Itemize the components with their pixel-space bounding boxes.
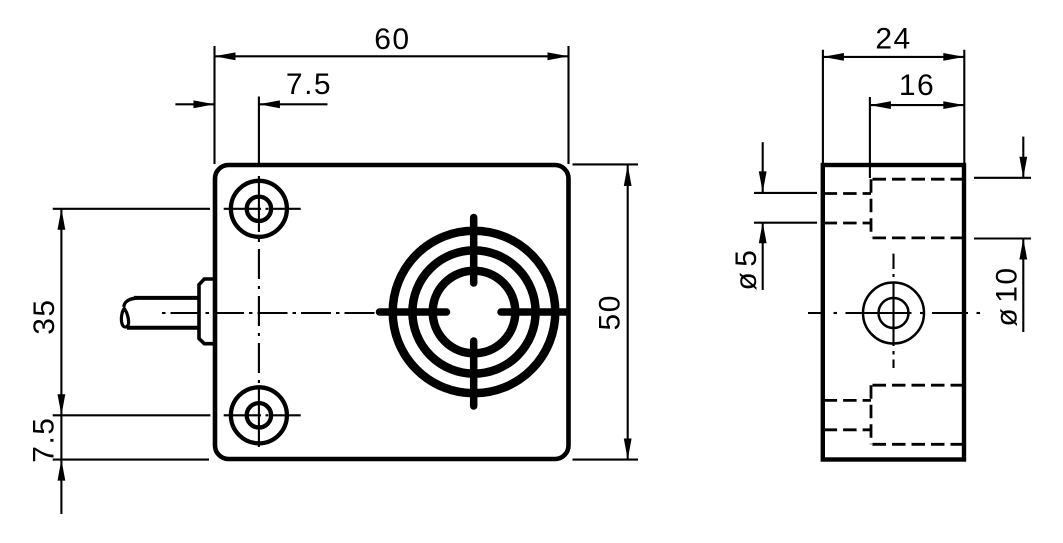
dim 60 dimension line [215, 55, 569, 57]
crosshair vertical bottom segment [470, 341, 478, 406]
dim 50 dimension line [627, 165, 629, 460]
dim 7.5 top right arrowhead [259, 100, 280, 108]
side view hole circle [879, 298, 909, 328]
dim text dia 5 [730, 248, 763, 290]
side view horizontal centerline [808, 312, 980, 314]
svg-text:7.5: 7.5 [27, 416, 60, 462]
svg-text:ø10: ø10 [990, 266, 1023, 326]
dim 16 dimension line [870, 104, 964, 106]
front view body outline [215, 165, 569, 459]
dim dia10 upper extension line [974, 177, 1031, 179]
hidden bore bottom (dia 10) dashed lines [871, 385, 964, 444]
dim 60 right arrowhead [548, 52, 569, 60]
dim dia10 lower extension line [974, 237, 1031, 239]
dim text 50 [593, 294, 626, 330]
dim 7.5 bottom up arrowhead [58, 460, 66, 481]
dim text dia 10 [990, 266, 1023, 326]
dim 7.5 top left line [175, 103, 214, 105]
hidden bore top (dia 10) dashed lines [871, 179, 964, 238]
dim 24 left extension line [822, 50, 824, 163]
dim 50 bottom arrowhead [624, 439, 632, 460]
dim dia10 up arrowhead [1019, 239, 1027, 260]
dim dia10 lower tail line [1022, 239, 1024, 333]
bottom mounting hole inner circle [247, 403, 271, 427]
dim 7.5 bottom extension line [53, 459, 209, 461]
dim 7.5 top left arrowhead [194, 100, 215, 108]
side view body outline [823, 165, 964, 460]
sensing face outer circle [393, 231, 556, 394]
dim 7.5 bottom dimension line [60, 415, 62, 514]
dim dia10 upper tail line [1022, 137, 1024, 178]
dim 35 dimension line [60, 209, 62, 415]
dim dia10 down arrowhead [1019, 157, 1027, 178]
top hole horizontal centerline [224, 208, 301, 210]
sensing face inner circle [433, 271, 516, 354]
dim 35 top arrowhead [58, 209, 66, 230]
cable broken end loop [121, 309, 128, 328]
cable broken end hook [124, 298, 137, 307]
dim 24 dimension line [823, 56, 964, 58]
side view vertical centerline [892, 254, 894, 368]
svg-text:60: 60 [374, 23, 410, 56]
svg-text:24: 24 [875, 22, 911, 55]
sensing face middle circle [412, 250, 535, 373]
bottom hole horizontal centerline [224, 414, 301, 416]
top mounting hole inner circle [247, 197, 271, 221]
svg-text:35: 35 [28, 298, 61, 334]
dim 35 top extension line [53, 208, 210, 210]
dim 16 extension line [869, 97, 871, 178]
cable bottom edge [127, 326, 199, 330]
dim text 35 [28, 298, 61, 334]
dim 50 top extension line [573, 163, 639, 165]
crosshair horizontal left segment [380, 308, 447, 316]
dim 24 left arrowhead [823, 53, 844, 61]
dim 16 left arrowhead [870, 101, 891, 109]
dim dia5 upper tail line [762, 142, 764, 192]
hidden hole top (dia 5) dashed lines [824, 194, 871, 224]
dim 60 left arrowhead [215, 52, 236, 60]
dim text 7.5 bottom [27, 416, 60, 462]
crosshair horizontal right segment [501, 308, 566, 316]
svg-text:50: 50 [593, 294, 626, 330]
cable gland [199, 279, 215, 344]
dim 35 bottom extension line [53, 414, 211, 416]
dim 35 bottom arrowhead [58, 394, 66, 415]
crosshair vertical top segment [470, 218, 478, 284]
cable centerline [162, 312, 378, 314]
top mounting hole outer circle [231, 181, 287, 237]
dim 16 right arrowhead [943, 101, 964, 109]
cable top edge [134, 296, 199, 300]
dim 60 right extension line [567, 46, 569, 164]
dim dia5 up arrowhead [759, 222, 767, 243]
dim 24 right arrowhead [943, 53, 964, 61]
svg-text:7.5: 7.5 [286, 68, 332, 101]
dim 7.5 top right line [259, 103, 328, 105]
side view counterbore circle [863, 283, 924, 344]
hidden hole bottom (dia 5) dashed lines [824, 400, 871, 429]
vertical centerline through both holes [258, 176, 260, 447]
dim dia5 upper extension line [754, 192, 817, 194]
dim 50 top arrowhead [624, 165, 632, 186]
svg-text:16: 16 [899, 69, 935, 102]
dim dia5 lower extension line [754, 222, 817, 224]
dim 60 left extension line [213, 46, 215, 164]
dim 7.5 top extension line [258, 97, 260, 165]
dim 50 bottom extension line [573, 459, 639, 461]
dim dia5 down arrowhead [759, 171, 767, 192]
bottom mounting hole outer circle [231, 387, 287, 443]
dim 24 right extension line [963, 50, 965, 163]
dim dia5 lower tail line [762, 222, 764, 290]
